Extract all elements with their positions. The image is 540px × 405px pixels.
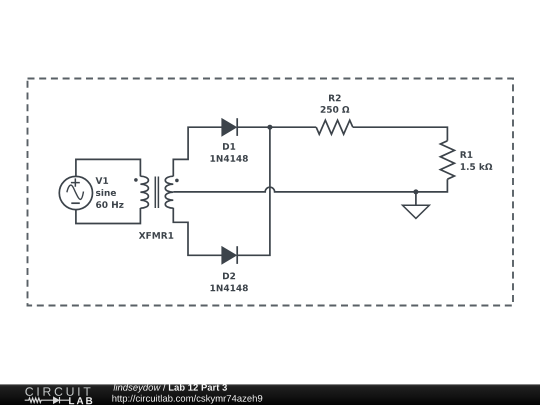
transformer XFMR1 primary winding bbox=[140, 176, 148, 208]
footer title "lindseydow / Lab 12 Part 3" bbox=[114, 384, 228, 393]
wire XFMR1 secondary top to D1 anode bbox=[173, 127, 222, 176]
voltage source V1 bbox=[59, 176, 92, 209]
resistor R1 bbox=[440, 141, 454, 179]
wire D2 cathode up to node A bbox=[237, 127, 270, 255]
wire D1 cathode to node A bbox=[237, 126, 270, 128]
resistor R2 bbox=[316, 120, 353, 134]
transformer XFMR1 secondary winding bbox=[165, 176, 173, 208]
label V1 "V1 / sine / 60 Hz" bbox=[96, 177, 124, 208]
wire node A to resistor R2 bbox=[270, 126, 316, 128]
CircuitLab logo circuit glyph (resistor + diode) bbox=[25, 397, 69, 403]
wire V1 bottom to XFMR1 primary bbox=[76, 208, 140, 224]
CircuitLab logo wordmark "LAB" bbox=[69, 397, 92, 404]
diode D1 bbox=[222, 118, 237, 136]
CircuitLab logo wordmark "CIRCUIT" bbox=[25, 387, 90, 396]
wire R2 to R1 top bbox=[353, 127, 448, 141]
ground bbox=[403, 192, 430, 219]
wire XFMR1 center tap to node B (hops over vertical wire) bbox=[173, 187, 416, 192]
transformer XFMR1 core bbox=[155, 177, 158, 209]
XFMR1 secondary phase dot bbox=[175, 179, 179, 183]
node A junction dot bbox=[267, 125, 272, 130]
node B junction dot bbox=[413, 189, 418, 194]
label XFMR1 bbox=[139, 232, 173, 239]
wire V1 top to XFMR1 primary bbox=[76, 159, 140, 176]
label D2 "D2 / 1N4148" bbox=[211, 273, 248, 292]
wire XFMR1 secondary bottom to D2 anode bbox=[173, 208, 222, 256]
wire node B to R1 bottom bbox=[416, 179, 448, 192]
footer bar bbox=[0, 384, 540, 405]
footer URL text "circuitlab.com/cskymr74azeh9" bbox=[112, 395, 262, 404]
diode D2 bbox=[222, 246, 237, 264]
label D1 "D1 / 1N4148" bbox=[211, 143, 248, 162]
label R2 "R2 / 250 Ω" bbox=[321, 95, 350, 113]
label R1 "R1 / 1.5 kΩ" bbox=[461, 151, 493, 170]
XFMR1 primary phase dot bbox=[134, 178, 138, 182]
